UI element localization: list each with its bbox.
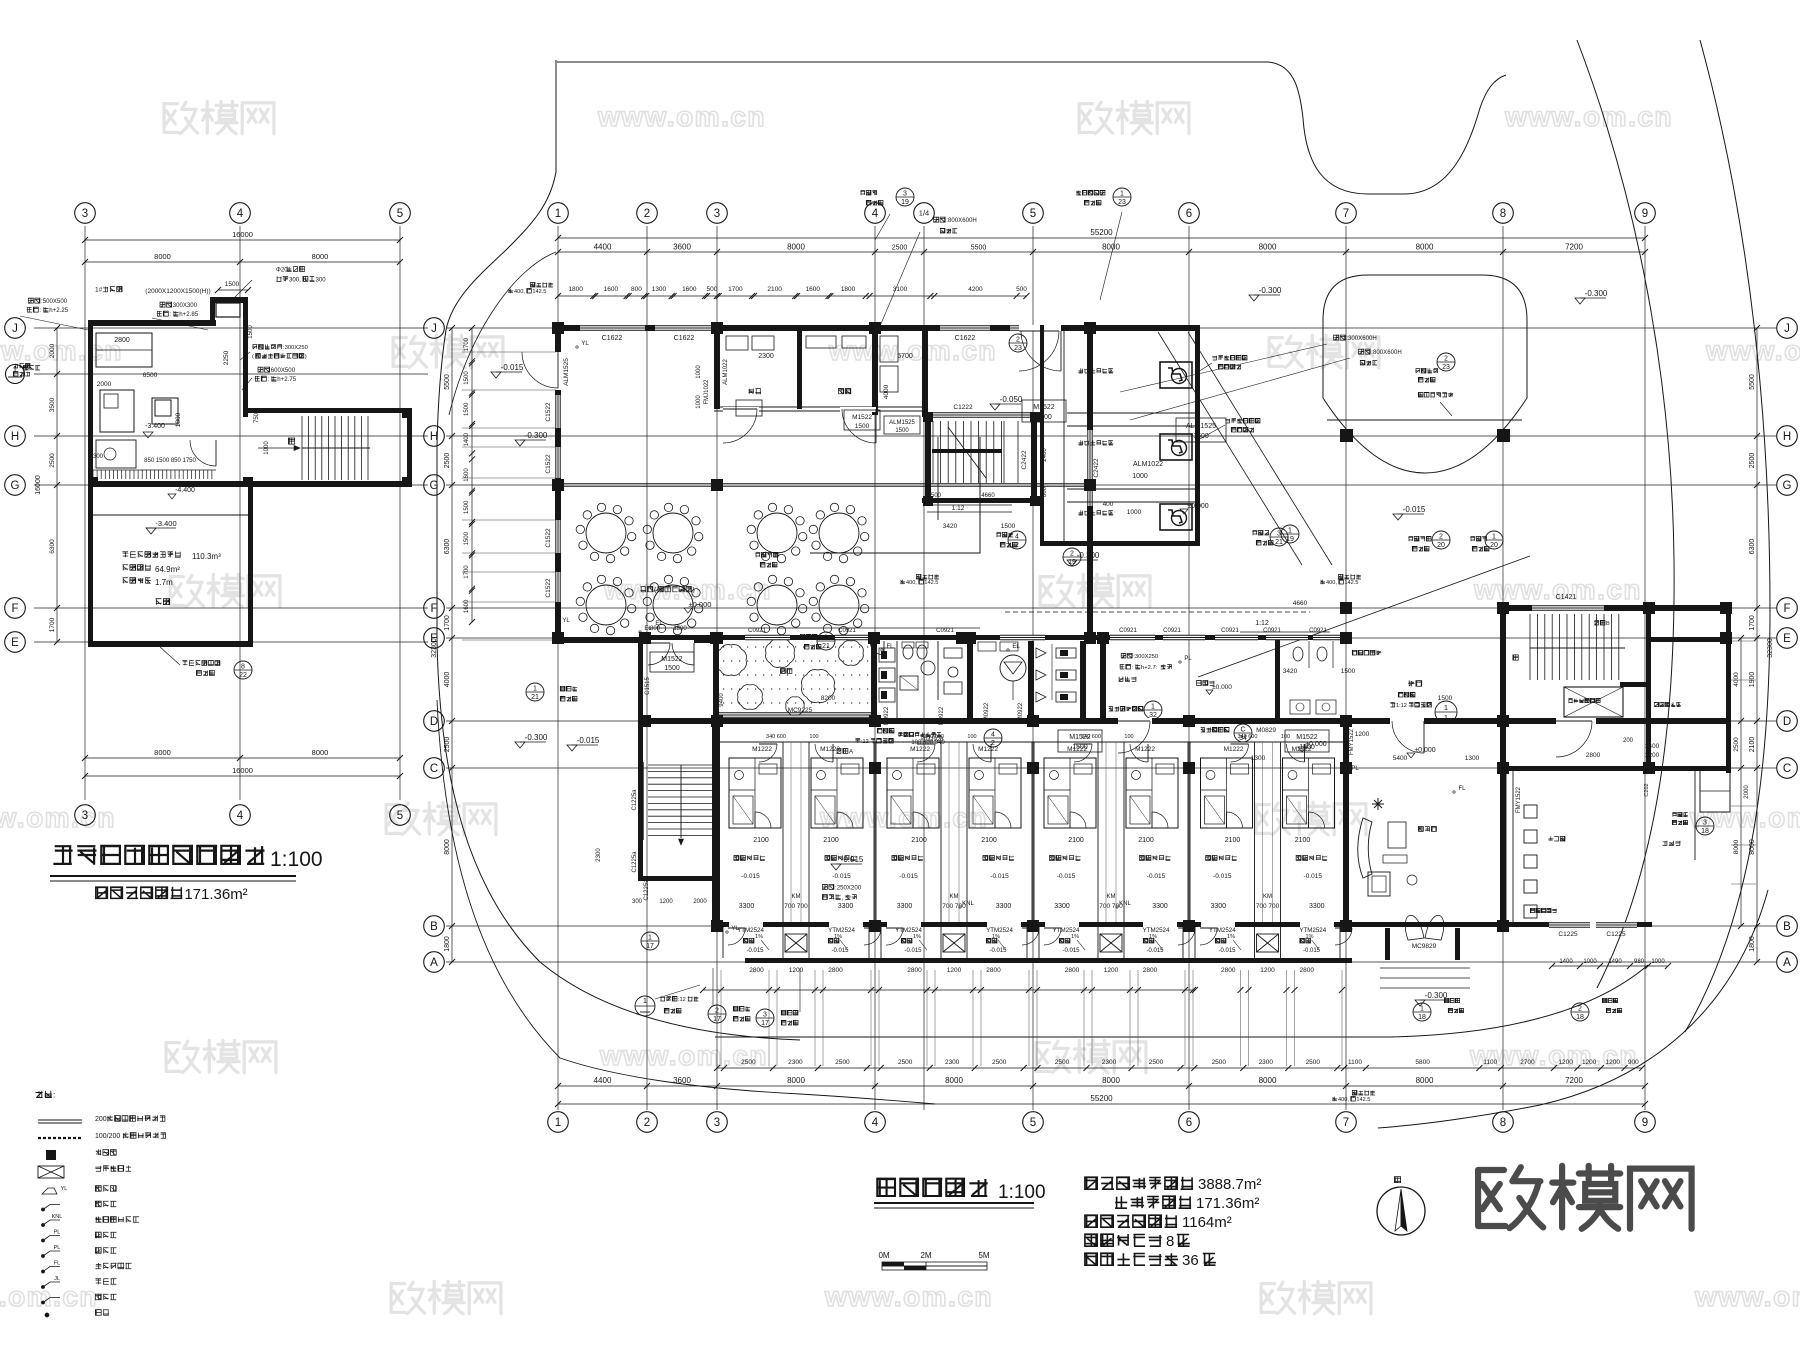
svg-text:h+2.75: h+2.75 [277, 376, 296, 383]
svg-text:4660: 4660 [981, 493, 995, 499]
svg-text:4660: 4660 [1293, 600, 1308, 607]
svg-text::800X600H: :800X600H [946, 217, 977, 224]
svg-text:340 600: 340 600 [766, 734, 786, 740]
svg-text:6: 6 [1186, 208, 1192, 220]
svg-text:3300: 3300 [1054, 903, 1070, 910]
svg-text:h+2.25: h+2.25 [49, 307, 68, 314]
room unit pair bay 2 [940, 742, 942, 922]
balcony slope arrows [761, 940, 769, 950]
svg-text:C0921: C0921 [1163, 628, 1181, 634]
WC1 squat stalls [879, 648, 895, 662]
door labels SE of hall [844, 410, 880, 430]
left plan horizontal axis lines [34, 327, 428, 329]
svg-text:M1222: M1222 [820, 746, 840, 753]
svg-text:A: A [430, 957, 438, 969]
svg-text:1%: 1% [1149, 934, 1157, 940]
svg-text:1600: 1600 [604, 286, 619, 293]
svg-text:1: 1 [1492, 534, 1496, 541]
main plan top dense dimension chain [558, 295, 1026, 297]
svg-text:18: 18 [1576, 1014, 1584, 1021]
svg-text:-0.015: -0.015 [746, 948, 764, 954]
left plan hatched wall strip [92, 470, 94, 479]
svg-text:1800: 1800 [175, 412, 182, 427]
svg-text:21: 21 [1275, 539, 1283, 546]
legend row wall 200 [38, 1119, 82, 1121]
corridor leader labels [877, 728, 894, 733]
svg-text:1700: 1700 [464, 337, 470, 351]
svg-text:1500: 1500 [225, 281, 240, 288]
NE wing wheelchair rooms [1093, 325, 1200, 331]
room label [1206, 855, 1237, 860]
svg-text:±0.000: ±0.000 [1212, 684, 1232, 691]
svg-text:KM: KM [1107, 894, 1116, 900]
svg-text:2: 2 [1439, 534, 1443, 541]
right dimension extension lines [1731, 640, 1756, 642]
svg-text:16000: 16000 [232, 766, 253, 775]
svg-text:3888.7m²: 3888.7m² [1198, 1176, 1261, 1193]
dashed canopy line above garden [1005, 611, 1310, 613]
svg-text:1000: 1000 [1132, 473, 1148, 480]
entrance steps [1380, 967, 1470, 969]
room label [983, 855, 1014, 860]
svg-text:C1522: C1522 [545, 578, 552, 598]
svg-text:8000: 8000 [312, 252, 329, 261]
svg-text:2: 2 [1016, 337, 1020, 344]
left plan top axis bubbles [75, 203, 96, 224]
svg-text:2100: 2100 [1138, 837, 1154, 844]
svg-text:55200: 55200 [1090, 228, 1113, 237]
svg-text:980: 980 [1634, 959, 1645, 965]
svg-text:±0.000: ±0.000 [1414, 747, 1435, 754]
svg-text:5800: 5800 [1415, 1059, 1430, 1066]
svg-text:-0.015: -0.015 [1303, 948, 1321, 954]
svg-text:171.36m²: 171.36m² [184, 886, 247, 903]
stair B treads [1529, 614, 1531, 680]
svg-text:4: 4 [991, 732, 995, 739]
svg-text:2250: 2250 [223, 350, 230, 365]
svg-text:21: 21 [822, 643, 830, 650]
svg-text:JL: JL [54, 1276, 60, 1282]
svg-text:8000: 8000 [1102, 1076, 1120, 1085]
G row floor line across dining [561, 483, 1087, 485]
svg-text:FL: FL [54, 1261, 60, 1267]
svg-text:2100: 2100 [767, 286, 782, 293]
bathroom pod [1283, 758, 1335, 828]
room entry door [815, 744, 833, 762]
left plan lower block walls [88, 481, 93, 647]
room entry door [1074, 744, 1092, 762]
west dimension extension lines [462, 351, 556, 353]
svg-text:1700: 1700 [49, 617, 56, 632]
lobby east wall axis8 [1500, 718, 1506, 928]
svg-text:6300: 6300 [49, 539, 56, 554]
svg-text:23: 23 [1118, 199, 1126, 206]
svg-text:1500: 1500 [464, 371, 470, 385]
right wing E wall [1646, 637, 1730, 642]
svg-text:1%: 1% [755, 934, 763, 940]
svg-text:KNL: KNL [52, 1214, 63, 1220]
svg-text:-0.015: -0.015 [1062, 948, 1080, 954]
svg-text:1%: 1% [1306, 934, 1314, 940]
svg-text:1500: 1500 [464, 500, 470, 514]
svg-text:1600: 1600 [464, 468, 470, 482]
svg-text:1:100: 1:100 [998, 1182, 1046, 1203]
svg-text:19: 19 [1286, 536, 1294, 543]
svg-text:400,: 400, [1338, 1097, 1349, 1103]
svg-text:2500: 2500 [1749, 453, 1756, 469]
svg-text:1500: 1500 [1072, 744, 1088, 751]
svg-text:3: 3 [82, 208, 88, 220]
bathroom pod [1044, 758, 1096, 828]
svg-text:1490: 1490 [1608, 959, 1622, 965]
svg-text:1700: 1700 [444, 615, 451, 631]
left plan vertical axis lines [84, 226, 86, 800]
svg-text:H: H [11, 431, 19, 443]
svg-text:18: 18 [1701, 828, 1709, 835]
right wing room label [1663, 841, 1681, 846]
svg-text:1: 1 [1288, 528, 1292, 535]
svg-text:M1522: M1522 [1033, 404, 1055, 411]
right wing B wall and windows C1225 [1500, 922, 1652, 927]
svg-text::500X500: :500X500 [41, 298, 68, 305]
AC unit box on balcony [1257, 934, 1279, 952]
svg-text:1: 1 [555, 1117, 561, 1129]
svg-text:2500: 2500 [1733, 737, 1740, 752]
svg-text:1800: 1800 [444, 936, 451, 952]
svg-text:100: 100 [967, 734, 976, 740]
svg-text:1000: 1000 [1127, 509, 1142, 516]
svg-text:1600: 1600 [806, 286, 821, 293]
room label [1049, 855, 1080, 860]
svg-text:E: E [11, 637, 19, 649]
corridor D wall [641, 718, 1506, 724]
svg-text:8000: 8000 [154, 252, 171, 261]
main plan left dimension chains [451, 328, 453, 962]
svg-text:2500: 2500 [444, 737, 451, 753]
dining hall interior partitions top rooms [714, 325, 720, 409]
svg-text:7: 7 [1343, 208, 1349, 220]
svg-text:J: J [1784, 323, 1790, 335]
main plan bottom axis dimension chain [558, 1085, 1645, 1087]
entrance doors dining NE [1019, 325, 1061, 331]
svg-text:F: F [430, 603, 437, 615]
svg-text:1400: 1400 [1559, 959, 1573, 965]
inner sidewalk arc top-left [449, 252, 556, 415]
legend row AC box [38, 1166, 64, 1178]
svg-text:2500: 2500 [1306, 1059, 1321, 1066]
room entry door [1130, 744, 1148, 762]
right wing inner wall axis mid [1646, 605, 1651, 773]
lobby B wall segments [1349, 922, 1389, 927]
svg-text:C: C [430, 763, 438, 775]
svg-text:-0.015: -0.015 [1057, 873, 1076, 880]
room label [734, 855, 765, 860]
svg-text:C1622: C1622 [674, 335, 695, 342]
svg-text:5: 5 [397, 810, 403, 822]
elevator [1564, 687, 1623, 717]
svg-text:-0.015: -0.015 [832, 873, 851, 880]
svg-text:200: 200 [95, 1116, 107, 1123]
svg-text:4000: 4000 [1733, 672, 1740, 687]
svg-text:-0.015: -0.015 [577, 736, 600, 745]
svg-text:3: 3 [714, 208, 720, 220]
svg-text:EL: EL [655, 621, 663, 627]
svg-text:2500: 2500 [1212, 1059, 1227, 1066]
svg-text:2: 2 [644, 208, 650, 220]
svg-text:2500: 2500 [898, 1059, 913, 1066]
svg-text:1600: 1600 [682, 286, 697, 293]
svg-text:500: 500 [1016, 286, 1027, 293]
svg-text:2500: 2500 [992, 1059, 1007, 1066]
svg-text:1200: 1200 [947, 967, 962, 974]
main plan right axis bubbles [1777, 318, 1798, 339]
lobby door arcs at D wall [1118, 718, 1152, 724]
svg-text:1:12: 1:12 [1255, 620, 1269, 627]
bathroom pod [1201, 758, 1253, 828]
svg-text:1200: 1200 [1355, 731, 1370, 738]
svg-text::300X250: :300X250 [1133, 654, 1158, 660]
stair A block [638, 876, 720, 881]
bathroom pod [969, 758, 1021, 828]
svg-text:1%: 1% [1071, 934, 1079, 940]
svg-text:C1622: C1622 [602, 335, 623, 342]
main plan top axis bubbles [548, 203, 569, 224]
svg-text:1500: 1500 [895, 428, 909, 434]
callout flags various [896, 188, 914, 206]
main plan horizontal axis lines [446, 327, 1776, 329]
svg-text:1200: 1200 [1558, 1059, 1573, 1066]
svg-text:2100: 2100 [823, 837, 839, 844]
svg-text:1: 1 [1444, 703, 1448, 712]
garden window MC9225 [719, 712, 871, 714]
svg-text:1/4: 1/4 [919, 209, 929, 218]
svg-text:ALM1525: ALM1525 [563, 358, 570, 386]
stair A window [638, 762, 640, 840]
svg-text:4: 4 [237, 810, 244, 822]
svg-text:9400: 9400 [719, 693, 725, 707]
svg-text:C1222: C1222 [953, 404, 973, 411]
svg-text:1200: 1200 [1645, 752, 1660, 759]
svg-text:8000: 8000 [1102, 243, 1120, 252]
courtyard diagonal ramps [1188, 332, 1332, 565]
garden trees [716, 645, 747, 676]
site boundary bottom-right arc [1390, 965, 1648, 1037]
svg-text:C0921: C0921 [1263, 628, 1281, 634]
svg-text:17: 17 [761, 1020, 769, 1027]
room entry door [759, 744, 777, 762]
svg-text:5M: 5M [978, 1251, 989, 1260]
svg-text:3: 3 [763, 1012, 767, 1019]
svg-text:32300: 32300 [1767, 638, 1774, 658]
left plan tank shallow zone line [93, 514, 248, 516]
svg-text:-4.400: -4.400 [175, 487, 195, 494]
svg-text:55200: 55200 [1090, 1094, 1113, 1103]
svg-text:YTM2524: YTM2524 [1299, 927, 1326, 934]
svg-text:C1225a: C1225a [632, 789, 638, 811]
svg-text:5500: 5500 [971, 245, 987, 252]
svg-text::300X250: :300X250 [283, 345, 308, 351]
svg-text:YL: YL [562, 618, 570, 624]
svg-text:YL: YL [731, 926, 739, 932]
svg-text:2100: 2100 [1225, 837, 1241, 844]
svg-text:C1522: C1522 [545, 402, 552, 422]
entrance butterfly door [1405, 915, 1424, 940]
svg-text:C1225a: C1225a [644, 879, 650, 901]
svg-text:23: 23 [1442, 364, 1450, 371]
svg-text:200: 200 [1623, 738, 1634, 744]
svg-text:B: B [430, 921, 438, 933]
svg-text:4: 4 [237, 208, 244, 220]
svg-text:8000: 8000 [1416, 1076, 1434, 1085]
main stair NE of dining [932, 421, 934, 483]
right wing interior walls [1505, 771, 1507, 922]
svg-text:2300: 2300 [788, 1059, 803, 1066]
svg-text::12: :12 [678, 997, 686, 1003]
svg-text:8: 8 [1166, 1233, 1174, 1250]
svg-text:4000: 4000 [444, 672, 451, 688]
svg-text:0M: 0M [878, 1251, 889, 1260]
right wing D wall [1506, 718, 1730, 724]
left plan door to stair [190, 440, 216, 466]
svg-text:2800: 2800 [1300, 967, 1315, 974]
big om logo [1478, 1166, 1692, 1229]
svg-text:1%: 1% [913, 934, 921, 940]
A row lower dimension line [703, 989, 1195, 991]
window C2422 dining east wall [1087, 430, 1093, 506]
AC unit box on balcony [943, 934, 965, 952]
svg-text:1: 1 [1444, 713, 1448, 722]
svg-text:D: D [1783, 716, 1791, 728]
left plan sink fixtures [96, 440, 136, 468]
svg-text:1700: 1700 [728, 286, 743, 293]
svg-text:EL: EL [1012, 644, 1020, 650]
room label [1139, 855, 1170, 860]
left plan stair wing walls [248, 408, 412, 413]
svg-text:2100: 2100 [753, 837, 769, 844]
svg-text:1900: 1900 [1749, 672, 1756, 688]
svg-text:C: C [1240, 727, 1245, 734]
svg-text:www.om.cn: www.om.cn [1694, 1281, 1800, 1312]
svg-text:1800: 1800 [1749, 936, 1756, 952]
svg-text:1100: 1100 [1348, 1059, 1362, 1066]
door labels M1522 ALM1525 boxed [1022, 400, 1066, 422]
flag 1 dash with stair note [635, 996, 655, 1016]
room unit pair bay 4 [1254, 742, 1256, 922]
NE wing air conditioner ledge label [1212, 355, 1247, 360]
svg-text:1:12: 1:12 [1396, 703, 1407, 709]
svg-text:M1522: M1522 [852, 414, 872, 421]
bathroom pod [887, 758, 939, 828]
svg-text:-3.400: -3.400 [145, 423, 165, 430]
svg-text:2800: 2800 [828, 967, 843, 974]
left plan kitchen counters [96, 333, 152, 367]
svg-text:-0.015: -0.015 [990, 873, 1009, 880]
svg-text:-0.300: -0.300 [1077, 551, 1100, 560]
svg-text:1300: 1300 [652, 286, 667, 293]
room label [892, 855, 923, 860]
left plan left dimension chain [56, 328, 58, 642]
svg-text:1000: 1000 [1651, 959, 1665, 965]
site boundary left curve [437, 60, 800, 1040]
room label [1296, 855, 1327, 860]
AC unit box on balcony [1100, 934, 1122, 952]
WC1 door [870, 641, 884, 655]
svg-text:8000: 8000 [945, 1076, 963, 1085]
svg-text:2100: 2100 [911, 837, 927, 844]
svg-text:4200: 4200 [968, 286, 983, 293]
svg-text:2: 2 [1578, 1006, 1582, 1013]
left plan stair wing column squares [402, 408, 412, 418]
svg-text:-0.015: -0.015 [904, 948, 922, 954]
svg-text:500: 500 [931, 493, 942, 499]
left plan vent shaft [216, 303, 240, 317]
svg-text:MC9225: MC9225 [788, 707, 813, 714]
svg-text:1%: 1% [992, 934, 1000, 940]
svg-text:2500: 2500 [1055, 1059, 1070, 1066]
svg-text:3: 3 [82, 810, 88, 822]
svg-text:8000: 8000 [1749, 839, 1756, 855]
svg-text:3420: 3420 [943, 523, 958, 530]
svg-text:3600: 3600 [673, 243, 691, 252]
room entry door [917, 744, 935, 762]
svg-text:A: A [1783, 957, 1791, 969]
svg-text:2500: 2500 [741, 1059, 756, 1066]
svg-text:400,: 400, [906, 580, 917, 586]
svg-text:1500: 1500 [464, 402, 470, 416]
svg-text:2100: 2100 [1068, 837, 1084, 844]
svg-text:M1522: M1522 [661, 656, 683, 663]
svg-text:8000: 8000 [154, 748, 171, 757]
svg-text:EL: EL [644, 626, 652, 632]
svg-text:3: 3 [1277, 531, 1281, 538]
legend row wall 100 [38, 1137, 82, 1139]
svg-text:64.9m²: 64.9m² [155, 565, 180, 574]
svg-text:ALM1525: ALM1525 [889, 420, 915, 426]
svg-text:KNL: KNL [1119, 901, 1131, 907]
svg-text:8: 8 [1500, 208, 1506, 220]
svg-text:8000: 8000 [1259, 1076, 1277, 1085]
svg-text::300X600H: :300X600H [1346, 335, 1377, 342]
svg-text:1300: 1300 [1251, 755, 1266, 762]
svg-text:(: ( [252, 354, 254, 360]
svg-text:19: 19 [901, 199, 909, 206]
svg-text:800: 800 [631, 286, 642, 293]
svg-text:FMY1522: FMY1522 [1516, 786, 1522, 813]
svg-text:1: 1 [648, 935, 652, 942]
svg-text:M1222: M1222 [910, 746, 930, 753]
svg-text:700 700: 700 700 [784, 903, 808, 910]
svg-text:100: 100 [1281, 734, 1290, 740]
E row black squares [639, 632, 651, 644]
svg-text:1: 1 [643, 996, 647, 1005]
main plan right dimension chains [1756, 328, 1758, 962]
flag leader texts [860, 190, 877, 195]
svg-text:PL: PL [1351, 766, 1359, 772]
svg-text:M1222: M1222 [1135, 746, 1155, 753]
svg-text:2M: 2M [920, 1251, 931, 1260]
svg-text:100: 100 [1124, 734, 1133, 740]
north arrow [1377, 1187, 1425, 1235]
svg-text:9: 9 [1642, 1117, 1648, 1129]
room label [825, 855, 856, 860]
svg-text:21: 21 [531, 694, 539, 701]
svg-text:22: 22 [239, 672, 247, 679]
svg-text:KM: KM [950, 894, 959, 900]
svg-text:1500: 1500 [1036, 414, 1052, 421]
svg-text:1200: 1200 [1606, 1059, 1621, 1066]
svg-text:www.om.cn: www.om.cn [0, 335, 123, 366]
svg-text:18: 18 [1418, 1014, 1426, 1021]
